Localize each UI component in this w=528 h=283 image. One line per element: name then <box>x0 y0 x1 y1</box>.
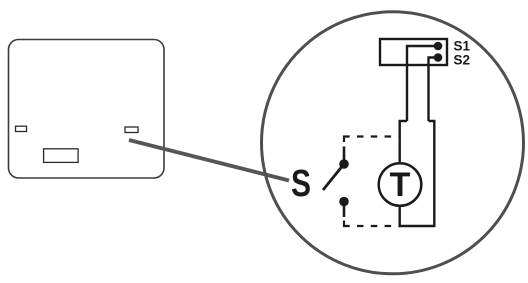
wire S2 <box>429 58 439 122</box>
switch top stub <box>343 147 346 165</box>
dashed box top <box>343 135 400 137</box>
dashed box left bottom corner <box>343 215 345 227</box>
terminal S1 <box>434 42 443 51</box>
svg-text:T: T <box>390 166 411 204</box>
terminal block <box>380 39 447 65</box>
housing slot left <box>16 126 27 131</box>
svg-text:S: S <box>291 163 311 205</box>
switch contact bottom <box>339 197 349 207</box>
switch lever <box>323 164 344 190</box>
housing button <box>44 149 79 163</box>
svg-text:S2: S2 <box>454 52 471 67</box>
terminal S2 <box>434 53 443 62</box>
magnifier circle <box>262 12 524 274</box>
pointer line <box>129 140 289 181</box>
sensor circle T <box>379 163 422 206</box>
sensor bulb <box>400 121 435 226</box>
wire S1 <box>407 46 438 121</box>
dashed box left top corner <box>343 136 345 148</box>
thermostat housing <box>9 40 165 179</box>
svg-text:S1: S1 <box>454 38 471 53</box>
switch bottom stub <box>343 202 346 218</box>
housing slot right <box>125 127 138 133</box>
dashed box bottom <box>343 225 400 227</box>
switch contact top <box>339 159 349 169</box>
